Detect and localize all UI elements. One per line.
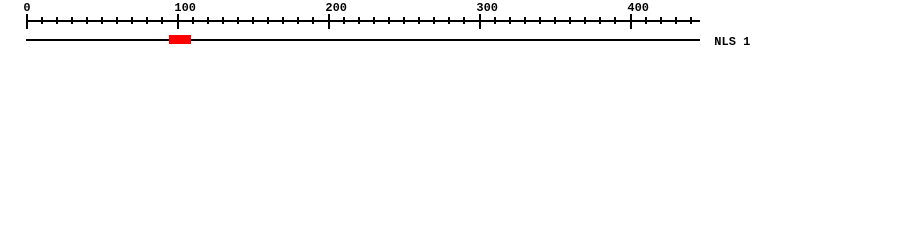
ruler label 0	[23, 2, 30, 14]
minor tick 260	[418, 17, 420, 24]
minor tick 280	[448, 17, 450, 24]
minor tick 240	[388, 17, 390, 24]
major tick 400	[630, 14, 632, 29]
minor tick 330	[524, 17, 526, 24]
ruler label 200	[325, 2, 347, 14]
minor tick 130	[222, 17, 224, 24]
ruler label 300	[476, 2, 498, 14]
minor tick 150	[252, 17, 254, 24]
minor tick 120	[207, 17, 209, 24]
sequence line	[26, 39, 700, 41]
minor tick 440	[690, 17, 692, 24]
minor tick 160	[267, 17, 269, 24]
minor tick 350	[554, 17, 556, 24]
major tick 0	[26, 14, 28, 29]
minor tick 10	[41, 17, 43, 24]
minor tick 110	[192, 17, 194, 24]
minor tick 80	[146, 17, 148, 24]
minor tick 250	[403, 17, 405, 24]
minor tick 40	[86, 17, 88, 24]
minor tick 20	[56, 17, 58, 24]
minor tick 170	[282, 17, 284, 24]
minor tick 220	[358, 17, 360, 24]
minor tick 140	[237, 17, 239, 24]
minor tick 390	[614, 17, 616, 24]
major tick 200	[328, 14, 330, 29]
minor tick 190	[312, 17, 314, 24]
minor tick 210	[343, 17, 345, 24]
minor tick 30	[71, 17, 73, 24]
minor tick 270	[433, 17, 435, 24]
minor tick 70	[131, 17, 133, 24]
ruler label 100	[174, 2, 196, 14]
ruler axis line	[26, 20, 700, 22]
minor tick 410	[645, 17, 647, 24]
major tick 300	[479, 14, 481, 29]
major tick 100	[177, 14, 179, 29]
minor tick 310	[494, 17, 496, 24]
minor tick 430	[675, 17, 677, 24]
NLS 1 label	[714, 36, 750, 48]
minor tick 370	[584, 17, 586, 24]
NLS 1 feature box	[169, 35, 191, 44]
minor tick 50	[101, 17, 103, 24]
minor tick 60	[116, 17, 118, 24]
minor tick 180	[297, 17, 299, 24]
minor tick 360	[569, 17, 571, 24]
minor tick 90	[161, 17, 163, 24]
minor tick 290	[463, 17, 465, 24]
minor tick 420	[660, 17, 662, 24]
minor tick 340	[539, 17, 541, 24]
minor tick 380	[599, 17, 601, 24]
ruler label 400	[627, 2, 649, 14]
minor tick 230	[373, 17, 375, 24]
minor tick 320	[509, 17, 511, 24]
